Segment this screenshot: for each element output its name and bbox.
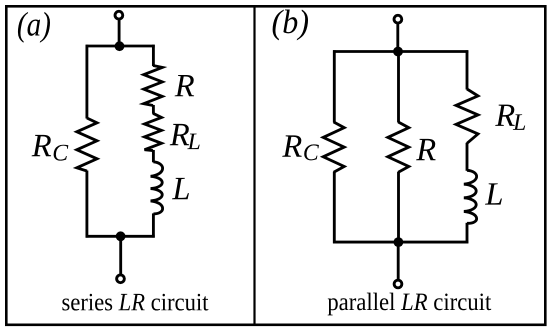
node bottom (a) <box>116 231 126 241</box>
resistor R_C (a) <box>77 118 97 171</box>
terminal top (b) <box>394 15 402 23</box>
wire stem top (b) <box>396 22 399 51</box>
wire middle branch upper (b) <box>397 50 400 122</box>
terminal bottom (a) <box>117 275 125 283</box>
wire between R_L and L (a) <box>152 150 155 162</box>
caption parallel LR circuit <box>328 293 492 316</box>
wire left branch lower (b) <box>333 172 336 244</box>
wire right branch lower (b) <box>466 223 469 244</box>
wire between R and R_L (a) <box>152 105 155 114</box>
label L (b) <box>485 183 502 204</box>
terminal top (a) <box>115 11 123 19</box>
wire middle branch lower (b) <box>397 172 400 244</box>
resistor R_C (b) <box>323 122 344 172</box>
wire right branch upper (a) <box>152 45 155 66</box>
wire stem bottom (b) <box>397 242 400 281</box>
wire left branch lower (a) <box>85 171 88 238</box>
wire stem top (a) <box>118 18 121 46</box>
node top (a) <box>115 41 125 51</box>
node bottom (b) <box>394 237 404 247</box>
caption series LR circuit <box>62 294 208 311</box>
wire bottom horizontal (b) <box>333 241 468 244</box>
resistor R (a) <box>144 66 163 106</box>
label R_C (b) <box>282 135 301 156</box>
panel divider <box>253 6 255 325</box>
resistor R_L (a) <box>145 113 162 150</box>
wire left branch upper (a) <box>85 45 88 119</box>
wire top horizontal (b) <box>333 50 468 53</box>
label R_L (b) <box>495 105 514 126</box>
panel label (b) <box>273 10 308 41</box>
label R (b) <box>416 139 435 160</box>
wire right branch lower (a) <box>152 213 155 237</box>
wire bottom horizontal (a) <box>86 235 155 238</box>
wire top horizontal (a) <box>86 45 155 48</box>
wire right branch upper (b) <box>466 50 469 89</box>
label R (a) <box>175 75 194 96</box>
resistor R (b) <box>388 122 409 172</box>
inductor L (a) <box>151 162 163 214</box>
label L (a) <box>172 178 189 199</box>
panel label (a) <box>18 12 50 43</box>
terminal bottom (b) <box>394 280 402 288</box>
label R_L (a) <box>170 124 189 145</box>
inductor L (b) <box>464 170 477 223</box>
resistor R_L (b) <box>456 89 478 143</box>
node top (b) <box>393 47 403 57</box>
wire between R_L and L (b) <box>466 143 469 171</box>
wire stem bottom (a) <box>119 236 122 275</box>
label R_C (a) <box>32 135 51 156</box>
wire left branch upper (b) <box>333 50 336 122</box>
